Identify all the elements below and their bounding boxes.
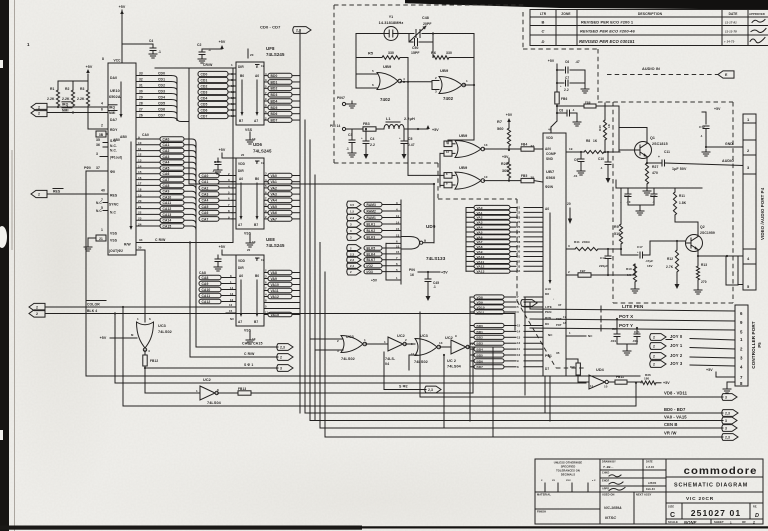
svg-text:VDD: VDD — [238, 259, 246, 263]
svg-text:L1: L1 — [386, 117, 391, 121]
VR/W tag wire — [325, 431, 738, 441]
VA8-VA15 output ladder boxes — [264, 269, 300, 317]
svg-text:BD5: BD5 — [271, 106, 278, 110]
svg-text:APPROVED: APPROVED — [749, 12, 765, 16]
svg-text:BD7: BD7 — [271, 118, 278, 122]
svg-text:20: 20 — [241, 153, 245, 157]
VD BD feeder verticals — [525, 297, 550, 421]
svg-text:B: B — [542, 20, 545, 25]
phi1 clock drop to UB9 D — [408, 82, 440, 176]
svg-text:CD4: CD4 — [158, 96, 165, 100]
resistor R3 2.2K — [77, 81, 90, 106]
dashed audio shield box — [598, 102, 733, 303]
svg-text:.1: .1 — [433, 285, 436, 289]
svg-text:C4: C4 — [370, 137, 375, 141]
commodore logo — [684, 466, 758, 477]
svg-text:16V: 16V — [647, 264, 653, 268]
svg-text:+5V: +5V — [371, 279, 378, 283]
svg-text:I/O2: I/O2 — [367, 264, 374, 268]
svg-text:28: 28 — [139, 102, 143, 106]
svg-text:CA7: CA7 — [202, 217, 209, 221]
svg-text:10: 10 — [484, 175, 488, 179]
svg-text:VA0 - VA15: VA0 - VA15 — [664, 415, 687, 420]
svg-text:POT Y: POT Y — [619, 323, 633, 328]
svg-text:BD0 - BD7: BD0 - BD7 — [664, 407, 686, 412]
svg-text:240Ω: 240Ω — [582, 240, 590, 244]
svg-text:2.2K: 2.2K — [47, 97, 55, 101]
svg-text:AB0: AB0 — [113, 138, 120, 142]
svg-text:18: 18 — [563, 321, 567, 325]
svg-text:2,3: 2,3 — [350, 216, 355, 220]
svg-text:DA0: DA0 — [110, 76, 117, 80]
svg-text:2SC1815: 2SC1815 — [652, 142, 668, 146]
svg-text:AUDIO IN: AUDIO IN — [642, 67, 660, 71]
JOY 3 tag and wire — [650, 361, 735, 368]
chain output wires — [443, 347, 493, 437]
svg-text:3: 3 — [435, 90, 437, 94]
cap C17 .47uF — [621, 241, 686, 268]
svg-text:3: 3 — [568, 244, 570, 248]
svg-text:11-13-78: 11-13-78 — [725, 30, 737, 34]
inductor L1 2.2uH — [384, 117, 428, 129]
cpu address bus CA0-CA15 ladder — [113, 133, 196, 230]
svg-text:FB4: FB4 — [521, 143, 527, 147]
nor gate UB9 7402 (osc B) — [439, 68, 468, 101]
svg-text:CA4: CA4 — [202, 199, 209, 203]
svg-text:DATE: DATE — [729, 12, 738, 16]
svg-text:2: 2 — [101, 124, 103, 128]
svg-text:BD2: BD2 — [271, 87, 278, 91]
svg-text:19: 19 — [569, 147, 573, 151]
svg-text:13: 13 — [230, 292, 234, 296]
UF8 VSS ground pin 10 — [245, 128, 256, 144]
svg-text:CD5: CD5 — [201, 102, 208, 106]
crystal Y1 14.31818MHz — [379, 15, 404, 41]
page fold line — [12, 0, 15, 531]
svg-text:C50: C50 — [412, 46, 419, 50]
svg-text:VSS: VSS — [244, 329, 252, 333]
svg-text:UB7: UB7 — [546, 169, 555, 174]
svg-text:BD1: BD1 — [271, 80, 278, 84]
svg-text:74LS02: 74LS02 — [341, 357, 355, 361]
svg-text:2: 2 — [280, 355, 282, 359]
ferrite bead FB12 — [143, 350, 159, 368]
svg-text:12: 12 — [230, 298, 234, 302]
svg-text:B7: B7 — [254, 320, 258, 324]
svg-text:Y1: Y1 — [389, 15, 394, 19]
svg-text:N.C.: N.C. — [110, 149, 117, 153]
svg-text:+5V: +5V — [119, 5, 126, 9]
svg-text:11: 11 — [446, 141, 449, 145]
svg-text:CA0 - CA15: CA0 - CA15 — [242, 342, 263, 346]
svg-text:PIN: PIN — [409, 268, 415, 272]
nor gate UB9 7402 (osc A) — [377, 64, 405, 102]
svg-text:CA2: CA2 — [202, 186, 209, 190]
svg-text:NONE: NONE — [684, 520, 697, 525]
svg-text:26: 26 — [139, 114, 143, 118]
svg-text:VA3: VA3 — [271, 193, 278, 197]
cap C13 220pF — [599, 248, 611, 276]
svg-text:DESCRIPTION: DESCRIPTION — [638, 12, 663, 16]
svg-text:FB11: FB11 — [616, 375, 624, 379]
svg-text:.01: .01 — [573, 174, 578, 178]
POT X wire — [530, 314, 735, 322]
svg-text:2: 2 — [524, 301, 526, 305]
svg-text:CA10: CA10 — [202, 288, 211, 292]
svg-text:1: 1 — [364, 338, 366, 342]
svg-text:+5V: +5V — [86, 65, 93, 69]
svg-text:1/6/81: 1/6/81 — [648, 481, 657, 485]
CEN B tag wire — [320, 422, 737, 431]
svg-text:FB8: FB8 — [585, 101, 591, 105]
UD9 output wire up — [423, 183, 435, 243]
svg-text:2: 2 — [568, 270, 570, 274]
svg-text:04: 04 — [385, 362, 389, 366]
svg-text:220pF: 220pF — [599, 264, 608, 268]
svg-text:31: 31 — [517, 255, 521, 259]
cpu phi2 out pin 39 wire — [136, 246, 145, 323]
svg-text:CD5: CD5 — [158, 102, 165, 106]
port P5 vertical label — [751, 321, 762, 369]
JOY 0 tag and wire — [650, 334, 735, 341]
svg-text:12: 12 — [138, 153, 142, 157]
UD6 +5V and C47 cap — [212, 148, 245, 174]
svg-text:C6: C6 — [565, 60, 569, 64]
S phi1 wire and tag — [144, 363, 293, 371]
long wire y383 to UD4 — [114, 312, 586, 383]
svg-text:UC3: UC3 — [158, 324, 166, 328]
UB9 C input wires — [440, 144, 455, 187]
svg-text:.001: .001 — [610, 339, 616, 343]
svg-text:COMP: COMP — [546, 152, 557, 156]
resistor R13 270 — [694, 252, 707, 295]
PIN14 terminal — [330, 124, 363, 131]
svg-text:+5V: +5V — [441, 271, 448, 275]
svg-text:+5V: +5V — [506, 113, 513, 117]
svg-text:UE8: UE8 — [266, 237, 275, 242]
svg-text:24: 24 — [138, 222, 142, 226]
svg-text:1: 1 — [231, 63, 233, 67]
revision table header text — [540, 12, 765, 16]
svg-text:+5V: +5V — [663, 381, 670, 385]
svg-text:74LS02: 74LS02 — [414, 360, 428, 364]
svg-text:.47μF: .47μF — [645, 259, 653, 263]
svg-text:2.2: 2.2 — [564, 88, 569, 92]
inverter UC2 74LS04 — [196, 378, 222, 405]
svg-text:8: 8 — [217, 388, 219, 392]
svg-text:20PF: 20PF — [423, 22, 432, 26]
svg-text:SIZE: SIZE — [668, 505, 674, 509]
svg-text:VA3: VA3 — [477, 221, 483, 225]
svg-text:C17: C17 — [637, 245, 643, 249]
+5V rail to CPU VCC — [119, 5, 126, 63]
wire to UC2 inverter — [145, 368, 200, 393]
svg-text:UC 2: UC 2 — [447, 359, 456, 363]
svg-text:18: 18 — [138, 188, 142, 192]
svg-text:A0: A0 — [239, 274, 243, 278]
svg-text:20: 20 — [138, 199, 142, 203]
svg-text:R8: R8 — [586, 139, 590, 143]
svg-text:39: 39 — [138, 246, 142, 250]
svg-text:5: 5 — [372, 69, 374, 73]
wire IRQ to pin 4 — [47, 106, 108, 108]
svg-text:BD1: BD1 — [477, 330, 484, 334]
svg-text:29: 29 — [517, 245, 521, 249]
nor gate UC3 74LS02 (chain) — [337, 335, 367, 361]
svg-text:CA4: CA4 — [163, 161, 170, 165]
svg-text:IRQ: IRQ — [109, 105, 115, 109]
svg-text:CA8: CA8 — [163, 184, 170, 188]
svg-text:C: C — [670, 512, 675, 519]
svg-text:CA11: CA11 — [202, 294, 211, 298]
svg-text:CA12: CA12 — [163, 207, 172, 211]
svg-text:38: 38 — [531, 176, 535, 180]
svg-text:+: + — [560, 84, 562, 88]
PIN7 terminal — [337, 96, 356, 108]
revision row D — [542, 38, 766, 45]
POT Y wire — [530, 323, 735, 331]
svg-text:+: + — [361, 136, 363, 140]
svg-text:.1: .1 — [572, 108, 575, 112]
svg-text:UB9: UB9 — [459, 165, 468, 170]
FB11 junction drop — [635, 382, 637, 405]
svg-text:CA6: CA6 — [163, 172, 170, 176]
svg-text:FB5: FB5 — [521, 174, 527, 178]
BLK4 wire — [46, 314, 515, 331]
svg-text:CD7: CD7 — [201, 114, 208, 118]
svg-text:PΦ0: PΦ0 — [84, 166, 91, 170]
svg-text:12: 12 — [446, 150, 450, 154]
CD0-CD7 buffer input ladder — [198, 71, 236, 118]
UD9 +5V pin1 row — [371, 276, 401, 283]
svg-text:CA7: CA7 — [163, 178, 170, 182]
svg-text:UD6: UD6 — [253, 142, 263, 147]
resistor R1 2.2K — [47, 81, 60, 106]
svg-text:DATE: DATE — [646, 461, 653, 464]
lite pen tag — [521, 300, 537, 309]
capacitor C44 bypass — [122, 39, 161, 58]
svg-text:2: 2 — [653, 335, 655, 339]
svg-text:BLK3: BLK3 — [367, 235, 376, 239]
svg-text:2: 2 — [753, 521, 755, 525]
svg-text:± X: ± X — [592, 480, 596, 482]
svg-text:.1: .1 — [158, 50, 161, 54]
svg-text:VA5: VA5 — [477, 230, 483, 234]
svg-text:RDY: RDY — [110, 128, 118, 132]
svg-text:R10: R10 — [626, 267, 632, 271]
svg-text:C R/W: C R/W — [244, 352, 255, 356]
buffer UE8 74LS245 body — [230, 237, 285, 326]
svg-text:CD4: CD4 — [201, 96, 208, 100]
svg-text:6560: 6560 — [546, 175, 556, 180]
+5V port bypass — [699, 107, 721, 147]
svg-text:CD2: CD2 — [158, 84, 165, 88]
svg-text:COLOR: COLOR — [87, 303, 100, 307]
svg-text:BD4: BD4 — [271, 99, 278, 103]
svg-text:A/N: A/N — [545, 147, 551, 151]
CR/W wire to UF8 pin 1 — [155, 63, 236, 68]
nor gate UB9 7402 (D) — [444, 165, 488, 189]
svg-text:CA0: CA0 — [163, 137, 170, 141]
used on cell — [602, 493, 652, 521]
svg-text:CA9: CA9 — [202, 282, 209, 286]
svg-text:USED ON: USED ON — [602, 493, 615, 497]
svg-text:2: 2 — [38, 111, 40, 115]
svg-text:VA6: VA6 — [477, 235, 483, 239]
svg-text:74LS04: 74LS04 — [207, 401, 222, 405]
svg-text:10: 10 — [517, 353, 521, 357]
svg-text:4: 4 — [101, 102, 103, 106]
svg-text:33: 33 — [139, 72, 143, 76]
svg-text:28: 28 — [517, 240, 521, 244]
svg-text:+: + — [399, 136, 401, 140]
svg-text:UF8: UF8 — [266, 46, 275, 51]
svg-text:6: 6 — [149, 317, 151, 321]
svg-text:20: 20 — [247, 248, 251, 252]
svg-text:DECIMALS: DECIMALS — [561, 473, 576, 477]
cap C16 .1 — [650, 188, 657, 205]
svg-text:2.2K: 2.2K — [77, 97, 85, 101]
UB9 D output to FB5 — [484, 174, 543, 183]
svg-text:SND: SND — [546, 157, 554, 161]
svg-text:VSS: VSS — [245, 128, 253, 132]
svg-text:21: 21 — [138, 205, 142, 209]
svg-text:16: 16 — [138, 176, 142, 180]
svg-text:CA5: CA5 — [163, 166, 170, 170]
svg-text:13: 13 — [396, 233, 400, 237]
GND wire port pin2 — [702, 142, 743, 156]
VA0-VA7 output ladder boxes — [264, 172, 300, 222]
inverter UC2 74LS04 (chain 2) — [439, 334, 474, 369]
svg-text:CA11: CA11 — [163, 201, 172, 205]
resistor R7 560 — [497, 113, 513, 151]
svg-text:PEN: PEN — [545, 310, 551, 314]
svg-text:15: 15 — [229, 309, 233, 313]
VIC pin20 ground arrow — [567, 202, 572, 224]
svg-text:1K: 1K — [593, 139, 598, 143]
svg-text:15PF: 15PF — [411, 51, 420, 55]
phi2 clock drop to UB9 C — [448, 85, 474, 144]
svg-text:2: 2 — [405, 338, 407, 342]
svg-text:22: 22 — [138, 211, 142, 215]
svg-text:VA2: VA2 — [477, 216, 483, 220]
BLK4 input tag — [29, 309, 97, 317]
inverter UD4 — [589, 368, 608, 389]
svg-text:2.2: 2.2 — [370, 143, 375, 147]
wire to Q1 base branch — [618, 106, 620, 152]
svg-text:.10: .10 — [626, 200, 631, 204]
svg-text:R1: R1 — [50, 87, 55, 91]
svg-text:POT: POT — [556, 323, 562, 327]
svg-text:.47: .47 — [575, 60, 580, 64]
svg-text:BLK5: BLK5 — [367, 246, 376, 250]
svg-text:NTSC: NTSC — [605, 515, 616, 520]
page zone mark 1 — [27, 42, 30, 47]
resistor R27 470 — [643, 159, 659, 196]
svg-text:AUDIO: AUDIO — [722, 159, 734, 163]
svg-text:C48: C48 — [422, 16, 429, 20]
svg-text:4: 4 — [148, 349, 150, 353]
svg-text:26: 26 — [517, 230, 521, 234]
svg-text:19: 19 — [138, 193, 142, 197]
cap C3 .1 — [346, 129, 356, 157]
svg-text:BLK2: BLK2 — [367, 229, 376, 233]
svg-text:T. Bk…: T. Bk… — [603, 465, 614, 469]
svg-text:6: 6 — [372, 83, 374, 87]
svg-text:VA8: VA8 — [477, 245, 483, 249]
UC3 chain2 lower input — [409, 355, 417, 370]
osc B tied inputs — [432, 76, 439, 94]
svg-text:.1: .1 — [600, 166, 603, 170]
svg-text:CD6: CD6 — [158, 108, 165, 112]
svg-text:1: 1 — [384, 340, 386, 344]
svg-text:R2: R2 — [65, 87, 70, 91]
svg-text:CD0: CD0 — [201, 72, 208, 76]
svg-text:74LS133: 74LS133 — [426, 256, 446, 261]
svg-text:C11: C11 — [664, 150, 670, 154]
dashed shield outline oscillator box — [334, 5, 586, 368]
svg-text:CA2: CA2 — [163, 149, 170, 153]
svg-text:UB9: UB9 — [440, 68, 449, 73]
nor gate UB9 7402 (C) — [444, 133, 488, 158]
svg-text:R40: R40 — [570, 365, 576, 369]
svg-text:UD4: UD4 — [596, 368, 605, 372]
svg-text:33: 33 — [517, 264, 521, 268]
svg-text:21: 21 — [99, 237, 103, 241]
svg-text:13: 13 — [138, 159, 142, 163]
svg-text:180: 180 — [644, 377, 650, 381]
svg-text:9: 9 — [455, 334, 457, 338]
svg-text:R/W: R/W — [124, 243, 131, 247]
svg-text:(Φ1out): (Φ1out) — [110, 156, 122, 160]
svg-text:11: 11 — [138, 147, 142, 151]
buffer UF8 74LS245 body — [236, 46, 285, 125]
svg-text:BLK 4: BLK 4 — [87, 309, 97, 313]
svg-text:2: 2 — [38, 105, 40, 109]
ferrite bead FB8 link — [556, 101, 619, 109]
cap C7 2.2 — [556, 70, 589, 93]
svg-text:470: 470 — [652, 171, 658, 175]
svg-text:2,3: 2,3 — [725, 435, 730, 439]
svg-text:BD4: BD4 — [477, 348, 484, 352]
svg-text:SYNC: SYNC — [109, 203, 119, 207]
svg-text:330: 330 — [446, 51, 452, 55]
svg-text:VD9: VD9 — [477, 300, 483, 304]
svg-text:VR /W: VR /W — [664, 431, 677, 436]
svg-text:DIR: DIR — [238, 266, 244, 270]
UB9 D input wires — [440, 175, 455, 185]
ferrite bead FB6 — [555, 92, 568, 104]
svg-text:R6: R6 — [431, 51, 436, 55]
svg-text:RAM2: RAM2 — [367, 209, 377, 213]
VIC data ladder BD0-BD7 — [470, 323, 543, 369]
svg-text:27: 27 — [139, 108, 143, 112]
resistor R2 2.2K — [62, 81, 75, 106]
transistor Q1 2SC1815 — [620, 136, 668, 159]
svg-text:VA10: VA10 — [271, 283, 279, 287]
svg-text:UE10: UE10 — [110, 89, 120, 93]
svg-text:6502A: 6502A — [109, 95, 121, 99]
svg-text:RES: RES — [53, 190, 61, 194]
svg-text:VA2: VA2 — [271, 186, 278, 190]
CA8-CA12 input ladder boxes — [199, 271, 236, 304]
svg-text:21: 21 — [517, 206, 521, 210]
svg-text:CA0: CA0 — [202, 174, 209, 178]
IRQ input tag — [31, 102, 71, 111]
svg-text:3: 3 — [725, 419, 727, 423]
svg-text:15: 15 — [138, 170, 142, 174]
svg-text:R5: R5 — [368, 52, 373, 56]
